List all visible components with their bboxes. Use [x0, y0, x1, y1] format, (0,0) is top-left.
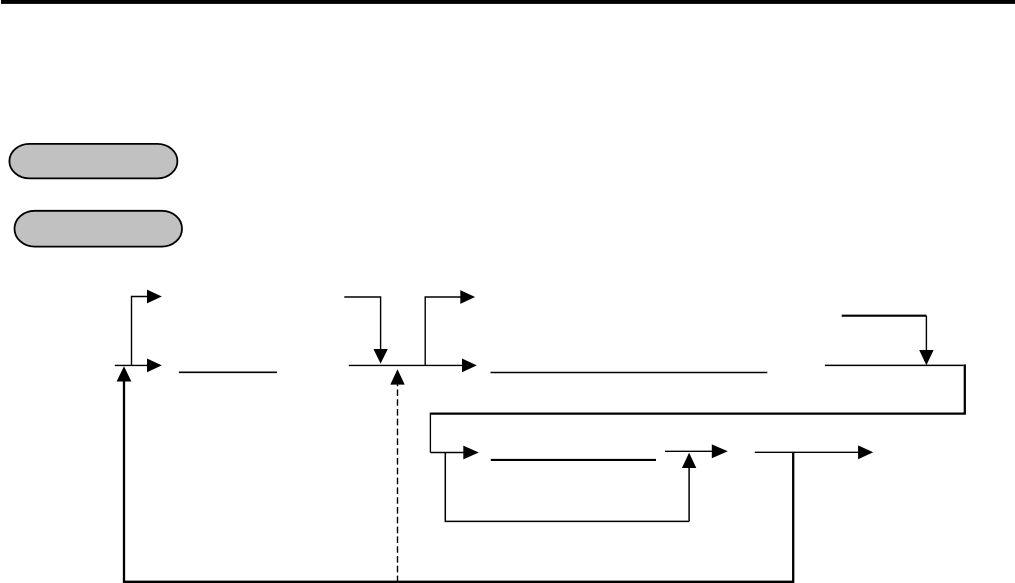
- arrow mid-top right: [460, 290, 475, 304]
- wire baseline left: [115, 364, 148, 366]
- arrow top-right down: [919, 350, 933, 365]
- wire loop down and across: [445, 453, 689, 522]
- arrow dashed up: [390, 369, 404, 384]
- arrow top-left right: [147, 290, 162, 304]
- wire mid top horizontal: [344, 297, 380, 349]
- wire lower-mid arrow shaft: [665, 450, 712, 452]
- arrow loop up: [682, 453, 696, 468]
- wire baseline middle: [349, 364, 463, 366]
- arrow lower-left right: [463, 446, 479, 460]
- arrow baseline-mid right: [462, 359, 477, 373]
- wire vertical left riser with top arrow shaft: [132, 297, 148, 367]
- header rule: [1, 0, 1015, 4]
- wire loop riser: [688, 468, 690, 522]
- pill 2: [15, 211, 183, 247]
- wire step lower drop: [429, 413, 431, 453]
- underline 3: [491, 459, 656, 461]
- arrow lower-mid right: [712, 444, 728, 458]
- wire step down path: [430, 364, 964, 413]
- arrow mid down: [373, 349, 387, 364]
- wire baseline right: [825, 364, 964, 366]
- wire top-right horizontal: [842, 315, 927, 317]
- underline 2: [491, 372, 768, 374]
- arrow lower-right right: [858, 445, 873, 459]
- wire lower-right arrow shaft: [755, 451, 859, 453]
- wire feedback loop: [124, 381, 793, 582]
- wire mid riser: [425, 297, 460, 365]
- wire lower-left arrow shaft: [430, 452, 463, 454]
- arrow feedback up (left): [117, 366, 132, 381]
- pill 1: [9, 144, 177, 179]
- wire top-right drop: [925, 316, 927, 350]
- arrow baseline-left right: [147, 359, 162, 373]
- wire dashed vertical: [397, 385, 399, 583]
- underline 1: [179, 371, 277, 373]
